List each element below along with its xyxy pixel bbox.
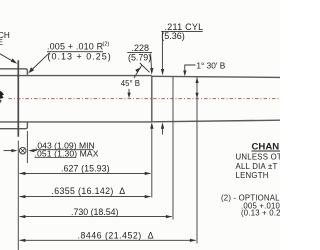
svg-text:.005 + .010 R: .005 + .010 R	[47, 42, 104, 52]
svg-text:.730 (18.54): .730 (18.54)	[71, 207, 119, 217]
svg-text:(2): (2)	[103, 41, 110, 47]
svg-text:(0.13 + 0.25: (0.13 + 0.25	[241, 209, 280, 218]
svg-text:.8446 (21.452) Δ: .8446 (21.452) Δ	[78, 231, 155, 241]
svg-text:45° B: 45° B	[121, 79, 140, 88]
svg-text:.627 (15.93): .627 (15.93)	[61, 164, 110, 174]
svg-text:UNLESS OT: UNLESS OT	[236, 153, 281, 162]
svg-text:(0.13 + 0.25): (0.13 + 0.25)	[48, 52, 112, 62]
svg-text:LENGTH: LENGTH	[236, 171, 269, 180]
svg-text:(5.36): (5.36)	[161, 31, 185, 41]
svg-text:1° 30′ B: 1° 30′ B	[196, 61, 225, 71]
svg-text:.051 (1.30) MAX: .051 (1.30) MAX	[35, 149, 99, 159]
svg-text:ALL DIA ±T: ALL DIA ±T	[236, 162, 278, 171]
svg-text:.6355 (16.142) Δ: .6355 (16.142) Δ	[52, 186, 126, 196]
svg-text:(5.79): (5.79)	[128, 52, 151, 62]
